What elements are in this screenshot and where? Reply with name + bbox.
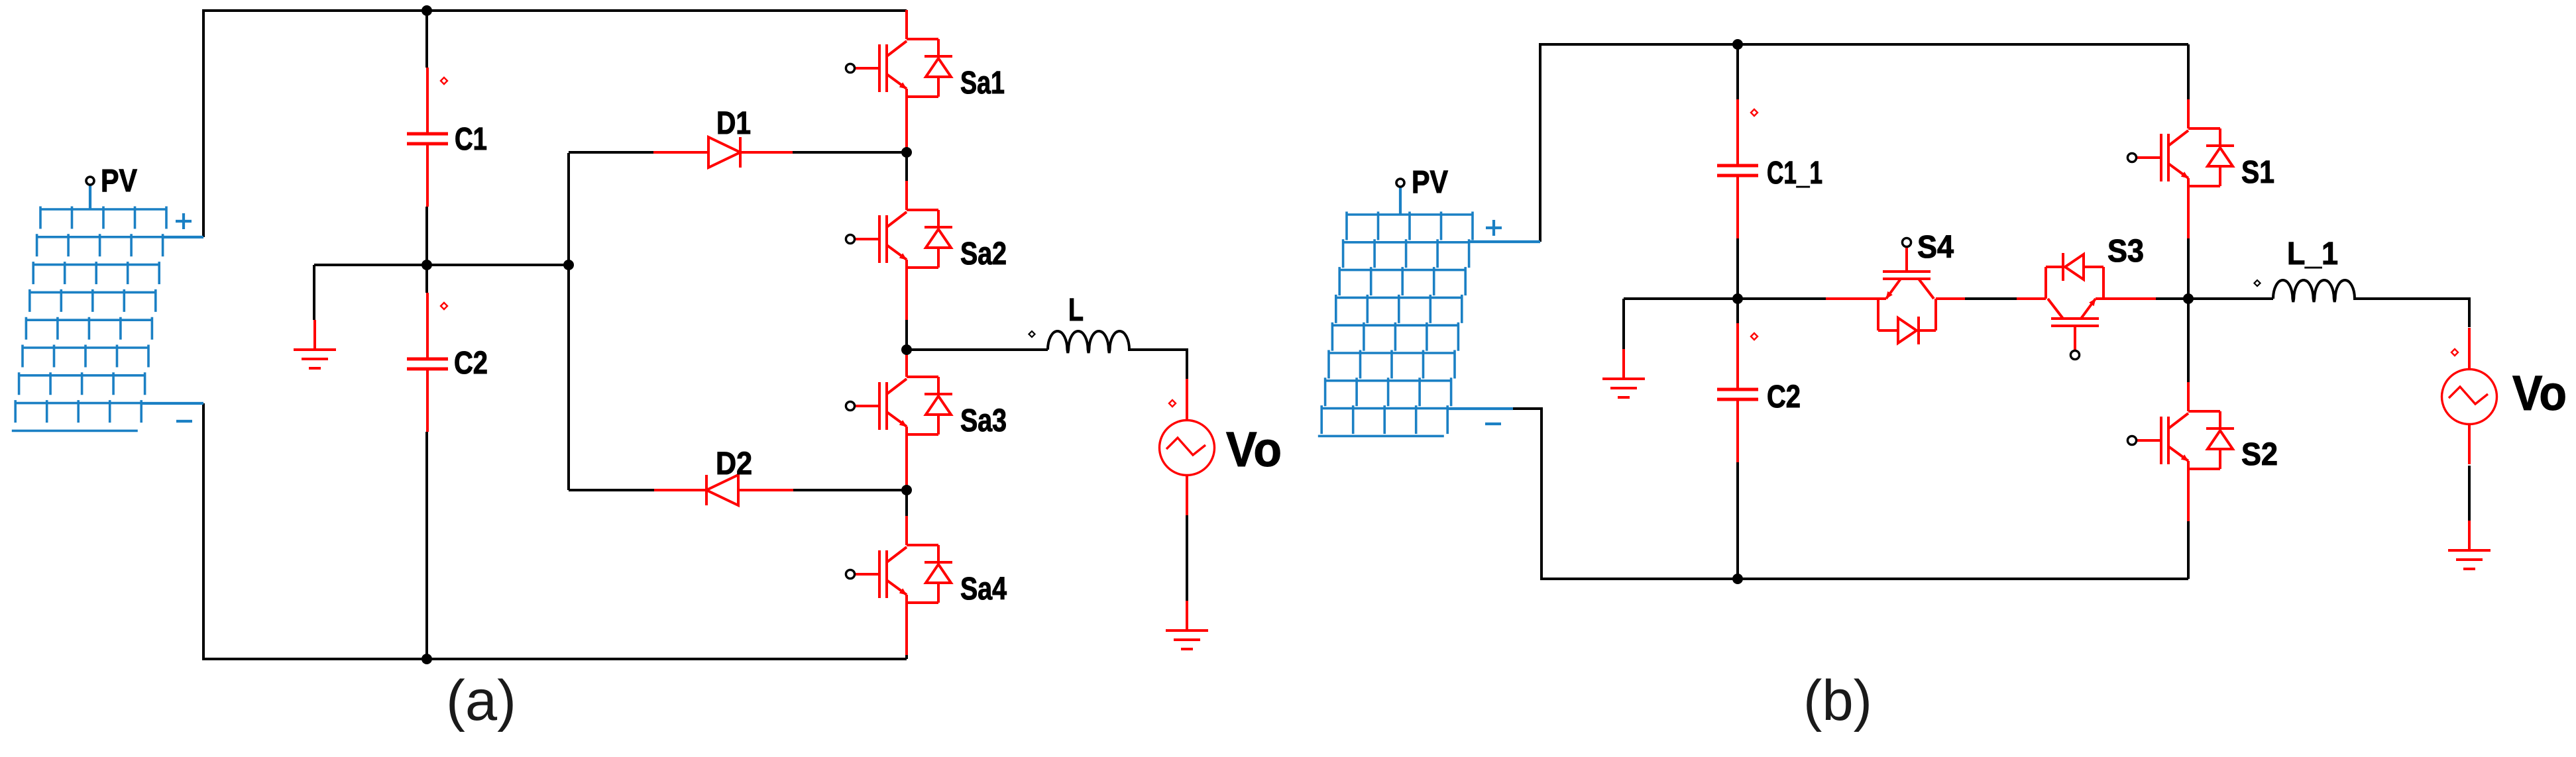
svg-text:C1: C1: [455, 122, 487, 157]
svg-text:Sa1: Sa1: [960, 66, 1005, 101]
svg-text:Sa4: Sa4: [960, 572, 1007, 607]
svg-text:C1_1: C1_1: [1767, 156, 1822, 191]
svg-text:Vo: Vo: [1226, 422, 1282, 477]
svg-text:L_1: L_1: [2287, 236, 2338, 272]
svg-text:PV: PV: [1412, 165, 1448, 200]
svg-text:C2: C2: [454, 346, 488, 381]
svg-text:S4: S4: [1917, 230, 1954, 265]
svg-text:C2: C2: [1767, 379, 1801, 415]
svg-text:Sa3: Sa3: [960, 403, 1007, 438]
svg-text:Sa2: Sa2: [960, 236, 1007, 272]
svg-text:D1: D1: [716, 106, 751, 141]
svg-text:Vo: Vo: [2512, 366, 2567, 421]
svg-text:S3: S3: [2107, 234, 2144, 269]
svg-text:D2: D2: [716, 446, 752, 481]
svg-text:(a): (a): [446, 669, 516, 732]
svg-text:(b): (b): [1803, 669, 1872, 732]
svg-text:PV: PV: [101, 164, 137, 199]
svg-text:S2: S2: [2241, 437, 2278, 472]
svg-text:S1: S1: [2241, 155, 2274, 190]
svg-text:L: L: [1068, 293, 1084, 328]
